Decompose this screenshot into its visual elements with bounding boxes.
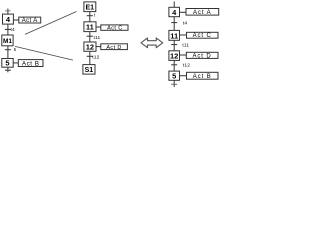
step 11 box bbox=[84, 22, 96, 32]
svg-text:12: 12 bbox=[170, 52, 178, 61]
step 4 box bbox=[3, 14, 14, 24]
svg-text:t4: t4 bbox=[11, 27, 16, 33]
transition bar t4 bbox=[5, 28, 11, 30]
wire 11 to 12 bbox=[89, 32, 91, 42]
wire 12r to 5r bbox=[173, 60, 175, 71]
macro step M1 box bbox=[2, 35, 13, 46]
svg-text:5: 5 bbox=[5, 59, 9, 68]
action box Act B bbox=[18, 60, 43, 67]
svg-text:11: 11 bbox=[170, 31, 178, 40]
svg-text:t11: t11 bbox=[182, 42, 189, 48]
transition bar t12 right bbox=[171, 64, 177, 66]
svg-text:Act C: Act C bbox=[107, 25, 122, 31]
wire step4 to ActA bbox=[13, 19, 18, 21]
wire below step 5 bbox=[7, 67, 9, 72]
step 11 box right bbox=[169, 30, 180, 40]
svg-text:t4: t4 bbox=[183, 20, 188, 26]
svg-text:Act A: Act A bbox=[193, 10, 212, 16]
step 4 box right bbox=[169, 7, 180, 16]
wire step5 to ActB bbox=[13, 62, 18, 64]
transition bar top bbox=[5, 10, 10, 12]
svg-text:t11: t11 bbox=[94, 35, 101, 41]
transition bar t4 right bbox=[171, 22, 177, 24]
wire 11r to 12r bbox=[173, 40, 175, 51]
svg-text:12: 12 bbox=[86, 43, 94, 52]
wire 4r to 11r bbox=[173, 17, 175, 31]
wire E1 to 11 bbox=[89, 12, 91, 22]
expansion link upper diagonal bbox=[25, 12, 77, 35]
entry step E1 box bbox=[84, 2, 96, 12]
svg-text:Act B: Act B bbox=[22, 60, 40, 67]
action box Act C right bbox=[187, 32, 219, 38]
wire 11 to ActC bbox=[96, 26, 101, 28]
svg-text:t12: t12 bbox=[92, 55, 99, 61]
transition bar below E1 bbox=[87, 15, 93, 17]
svg-text:Act D: Act D bbox=[106, 45, 121, 51]
transition bar below M1 bbox=[5, 49, 11, 51]
wire above step 4 bbox=[7, 9, 9, 15]
wire 11r to ActC bbox=[180, 34, 187, 36]
svg-text:Act B: Act B bbox=[193, 74, 212, 80]
exit step S1 box bbox=[83, 65, 95, 75]
svg-text:11: 11 bbox=[86, 23, 94, 32]
wire above step 4r bbox=[173, 2, 175, 8]
wire 12 to ActD bbox=[96, 46, 101, 48]
wire M1 to step 5 bbox=[7, 46, 9, 59]
step 5 box right bbox=[169, 71, 180, 80]
svg-text:E1: E1 bbox=[86, 4, 95, 11]
svg-text:t12: t12 bbox=[183, 63, 190, 69]
wire 12r to ActD bbox=[180, 54, 187, 56]
action box Act D right bbox=[186, 52, 218, 58]
svg-text:Act A: Act A bbox=[22, 18, 38, 24]
step 12 box bbox=[84, 42, 96, 51]
wire 12 to S1 bbox=[89, 51, 91, 64]
transition bar bottom right bbox=[171, 83, 177, 85]
step 5 box bbox=[2, 59, 13, 68]
svg-text:5: 5 bbox=[172, 72, 176, 81]
action box Act D bbox=[101, 44, 128, 50]
step 12 box right bbox=[169, 51, 180, 61]
action box Act C bbox=[101, 25, 128, 30]
svg-text:Act D: Act D bbox=[193, 53, 212, 59]
wire step4 to M1 bbox=[7, 24, 9, 35]
svg-text:S1: S1 bbox=[85, 67, 94, 74]
action box Act A right bbox=[186, 9, 219, 16]
wire 5r to ActB bbox=[180, 75, 187, 77]
equivalence double arrow bbox=[141, 38, 163, 48]
transition bar bottom bbox=[5, 69, 11, 71]
svg-text:M1: M1 bbox=[3, 38, 12, 45]
svg-text:Act C: Act C bbox=[193, 33, 212, 39]
wire below 5r bbox=[173, 80, 175, 87]
expansion link lower diagonal bbox=[15, 46, 73, 60]
wire 4r to ActA bbox=[180, 11, 187, 13]
transition bar t11 bbox=[87, 35, 93, 37]
action box Act A bbox=[19, 17, 41, 23]
transition bar t12 bbox=[87, 55, 93, 57]
transition bar t11 right bbox=[171, 44, 177, 46]
action box Act B right bbox=[187, 72, 219, 79]
